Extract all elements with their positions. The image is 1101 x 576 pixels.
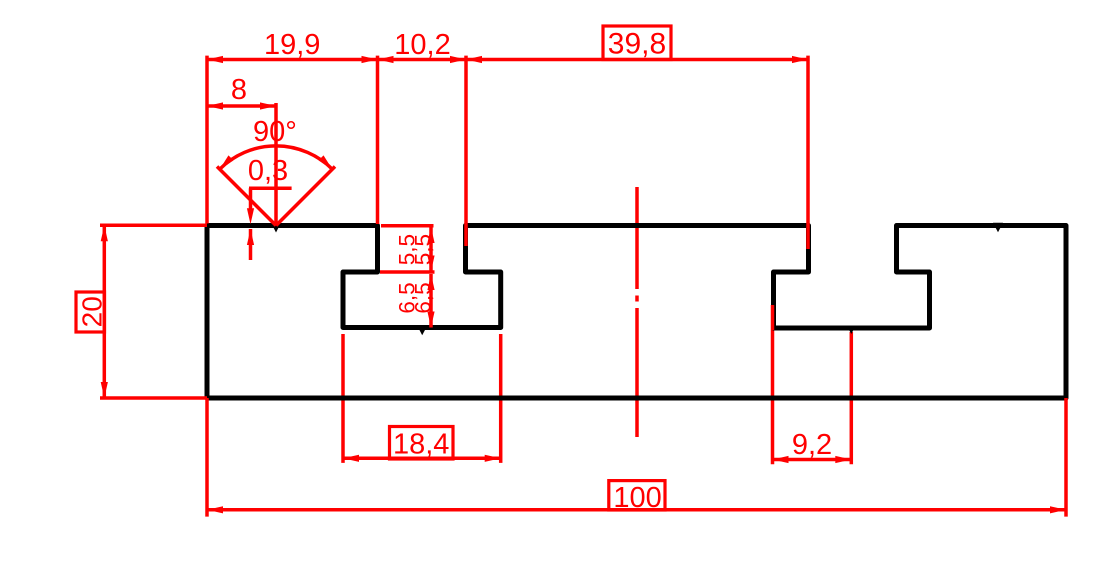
8 arrows (207, 102, 223, 109)
svg-text:100: 100 (613, 482, 661, 514)
red dimension graphics on top (100, 56, 1066, 517)
svg-text:39,8: 39,8 (608, 28, 666, 61)
notch V mark top-left at x=276 (271, 223, 281, 233)
svg-text:5,5: 5,5 (411, 234, 436, 265)
ext horizontal y=398 (100, 396, 207, 400)
svg-text:19,9: 19,9 (264, 29, 320, 61)
9,2 arrows (773, 456, 789, 463)
box 18,4 (390, 427, 454, 460)
90 deg right ray (276, 167, 335, 226)
ext slot top level (381, 224, 434, 228)
svg-text:9,2: 9,2 (792, 429, 832, 461)
svg-text:6,5: 6,5 (411, 282, 436, 313)
box 20 (76, 292, 105, 332)
centerline (red dash-dot, under profile) (635, 187, 639, 437)
19,9 arrows (207, 56, 223, 63)
dim 20: vertical line x=104.3 (103, 225, 107, 398)
20 arrows (101, 225, 108, 241)
box 39,8 (603, 26, 671, 60)
box 100 (609, 481, 665, 510)
dim 100 line (207, 508, 1066, 512)
dim 6,5 line (429, 274, 433, 328)
dimension texts (77, 28, 833, 515)
dim line 8: y=106 (207, 104, 276, 108)
ext horizontal y=225.3 (100, 224, 207, 228)
svg-text:0,3: 0,3 (248, 155, 288, 187)
extension line x=207 top (205, 56, 209, 224)
dim 9,2 line (773, 458, 852, 462)
svg-text:8: 8 (231, 74, 247, 106)
0,3 underline (249, 187, 292, 191)
notch V mark top-right at x=998 (993, 223, 1003, 233)
90 deg arc (220, 146, 333, 169)
top dimension line y=59.5 (207, 58, 808, 62)
svg-text:10,2: 10,2 (394, 29, 450, 61)
dim 18,4 line (343, 457, 501, 461)
notch V mark right slot bottom at x=851 (847, 326, 856, 334)
39,8 arrows (466, 56, 482, 63)
arrowheads (101, 56, 1066, 513)
90 deg arc arrows (217, 155, 233, 171)
ext x=1066 bottom (1064, 398, 1068, 517)
extension line x=808 (806, 56, 810, 249)
dimension boxes (76, 26, 671, 510)
18,4 arrows (343, 455, 359, 462)
ext x=207 bottom (205, 398, 209, 517)
rotated slot depth texts (395, 234, 436, 314)
extension lines under profile (18,4 and 9,2) (343, 330, 851, 464)
100 arrows (207, 506, 223, 513)
extension/bisector x=276 (274, 103, 278, 226)
0,3 arrows (247, 208, 254, 224)
svg-text:20: 20 (77, 296, 108, 327)
5,5 arrows (427, 227, 434, 243)
extension line x=466 (464, 56, 468, 246)
svg-text:90°: 90° (253, 116, 297, 148)
svg-text:18,4: 18,4 (393, 429, 449, 461)
dim 5,5 line (429, 227, 433, 272)
extension line x=772.5 upper (over wall) (771, 305, 775, 330)
10,2 arrows (378, 56, 394, 63)
6,5 arrows (427, 274, 434, 290)
profile outline (black) (207, 226, 1066, 399)
0,3 upper leader (249, 188, 253, 212)
90 deg left ray (217, 167, 276, 226)
0,3 lower tail (249, 229, 253, 260)
notch V mark left slot bottom at x=422 (417, 325, 428, 335)
ext shoulder level (380, 270, 435, 274)
extension line x=377.5 (376, 56, 380, 224)
